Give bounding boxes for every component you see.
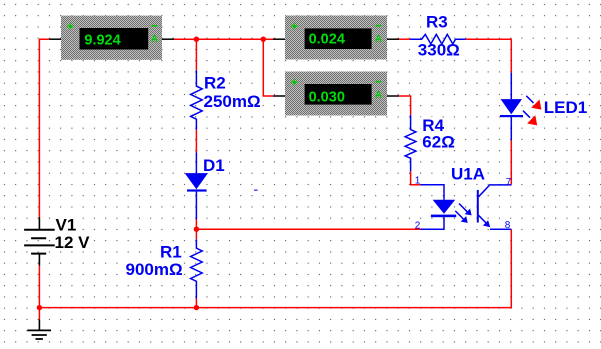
ammeter XMM3 body [285, 72, 387, 116]
svg-text:D1: D1 [203, 156, 225, 175]
LED1 emission arrow 2 [523, 111, 537, 126]
diode D1 [185, 152, 208, 219]
optocoupler U1A pin2 lead [421, 217, 444, 229]
svg-text:1: 1 [415, 176, 421, 187]
svg-text:330Ω: 330Ω [418, 41, 460, 60]
svg-text:250mΩ: 250mΩ [204, 92, 261, 111]
battery V1 bottom lead [38, 254, 40, 266]
ammeter XMM1 body [61, 16, 162, 60]
svg-text:LED1: LED1 [544, 98, 587, 117]
XMM1 right pin stub [162, 38, 174, 40]
junction node D [194, 305, 199, 310]
svg-text:8: 8 [505, 220, 511, 231]
svg-text:0.030: 0.030 [309, 90, 345, 106]
U1A light arrow 2 [455, 211, 467, 223]
resistor R4 [405, 115, 416, 172]
wire R3 to LED1 anode [466, 39, 512, 72]
svg-text:9.924: 9.924 [84, 32, 120, 48]
ammeter XMM2 plus mark [291, 23, 297, 29]
svg-text:2: 2 [415, 220, 421, 231]
wire R4 to U1A pin1 [411, 171, 421, 184]
wire LED1 cathode to U1A pin7 [510, 140, 512, 184]
optocoupler U1A LED [431, 200, 456, 217]
resistor R3 [410, 34, 466, 44]
label background boxes [55, 14, 589, 278]
resistor R2 [191, 70, 203, 129]
svg-text:A: A [375, 90, 382, 101]
ammeter XMM2 display [305, 28, 372, 49]
svg-text:U1A: U1A [451, 165, 485, 184]
svg-text:R3: R3 [426, 13, 448, 32]
wire node A down to R2 [195, 39, 197, 70]
svg-text:V1: V1 [56, 215, 77, 234]
junction node E [37, 305, 42, 310]
svg-text:7: 7 [506, 177, 512, 188]
wire node B down to XMM3 [263, 39, 273, 96]
svg-text:A: A [151, 34, 158, 45]
XMM3 right pin stub [387, 95, 399, 97]
junction node B [261, 37, 266, 42]
ammeter XMM2 body [285, 16, 387, 60]
battery V1 top lead [38, 217, 40, 230]
optocoupler U1A pin1 lead [421, 185, 444, 200]
wire R1 to bottom rail [195, 299, 197, 308]
svg-text:12 V: 12 V [55, 233, 91, 252]
svg-text:62Ω: 62Ω [422, 132, 455, 151]
LED1 [500, 73, 523, 141]
ammeter XMM1 display [80, 28, 149, 50]
wire node C down to R1 [195, 229, 197, 239]
XMM2 left pin stub [273, 38, 285, 40]
wire D1 cathode to node C [195, 219, 197, 229]
svg-text:0.024: 0.024 [309, 32, 345, 48]
svg-text:R2: R2 [204, 74, 226, 93]
wire R2 to D1 [195, 130, 197, 153]
ammeter XMM2 minus mark [376, 25, 382, 27]
LED1 emission arrow 1 [526, 96, 541, 110]
wire XMM2 to R3 [399, 38, 410, 40]
wire U1A pin8 down and bottom rail [39, 229, 512, 307]
ground lead [38, 320, 40, 331]
stray blue artifact [254, 189, 258, 191]
svg-text:900mΩ: 900mΩ [126, 260, 183, 279]
wire V1+ up left rail to XMM1 [39, 39, 49, 217]
wire node C to U1A pin2 [196, 228, 420, 230]
XMM1 left pin stub [49, 38, 61, 40]
ammeter XMM3 minus mark [376, 81, 382, 83]
svg-text:R1: R1 [160, 242, 182, 261]
U1A light arrow 1 [459, 204, 472, 216]
wire V1- to ground [38, 265, 40, 319]
battery V1 plates [24, 230, 55, 254]
ammeter XMM1 minus mark [152, 25, 158, 27]
ammeter XMM1 plus mark [67, 23, 73, 29]
XMM3 left pin stub [273, 95, 285, 97]
XMM2 right pin stub [387, 38, 399, 40]
U1A phototransistor [477, 185, 512, 229]
wire XMM3 to R4 [399, 96, 411, 115]
ammeter XMM3 plus mark [291, 79, 297, 85]
ground bars [27, 330, 51, 339]
resistor R1 [191, 239, 203, 298]
wire XMM1 to XMM2 [174, 38, 273, 40]
ammeter XMM3 display [305, 84, 372, 105]
svg-text:A: A [375, 34, 382, 45]
junction node A [194, 37, 199, 42]
junction node C [194, 227, 199, 232]
